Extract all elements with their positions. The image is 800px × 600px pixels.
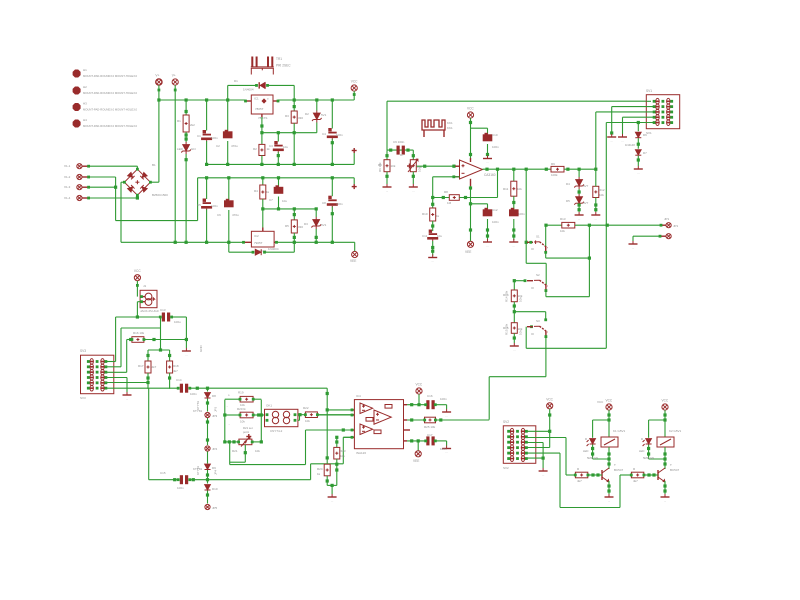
svg-text:JP3: JP3: [212, 414, 218, 418]
svg-text:...: ...: [486, 160, 489, 164]
svg-text:R13: R13: [560, 217, 566, 221]
svg-text:...: ...: [486, 244, 489, 248]
svg-text:JP4: JP4: [212, 447, 218, 451]
svg-text:R7: R7: [400, 153, 404, 157]
svg-text:D8: D8: [212, 394, 216, 398]
svg-text:78XXS: 78XXS: [258, 116, 267, 120]
svg-text:100n: 100n: [211, 204, 218, 208]
svg-text:5MM GN: 5MM GN: [643, 456, 654, 460]
svg-text:100n: 100n: [518, 212, 525, 216]
svg-text:SV2: SV2: [503, 420, 509, 424]
svg-text:100n: 100n: [190, 392, 197, 396]
svg-text:10k: 10k: [418, 167, 422, 172]
svg-text:D5: D5: [566, 199, 570, 203]
svg-text:PRI 2SEC: PRI 2SEC: [276, 64, 291, 68]
svg-text:D10: D10: [212, 487, 218, 491]
svg-text:TR1: TR1: [276, 57, 282, 61]
svg-text:10k: 10k: [340, 454, 345, 458]
svg-text:330: 330: [298, 116, 303, 120]
svg-text:C10: C10: [492, 133, 498, 137]
svg-text:...: ...: [445, 414, 448, 418]
svg-text:...: ...: [126, 397, 129, 401]
svg-text:1N4004: 1N4004: [268, 247, 279, 251]
svg-text:C17: C17: [427, 433, 433, 437]
svg-text:100n: 100n: [492, 220, 499, 224]
svg-text:C13: C13: [160, 308, 166, 312]
svg-text:7805T: 7805T: [255, 107, 264, 111]
svg-text:100u: 100u: [174, 320, 181, 324]
svg-text:100n: 100n: [336, 133, 343, 137]
svg-text:K1 G5V1: K1 G5V1: [613, 429, 626, 433]
svg-text:C16: C16: [427, 394, 433, 398]
svg-text:10k: 10k: [519, 330, 523, 335]
svg-text:4V7: 4V7: [583, 201, 589, 205]
svg-text:R22: R22: [303, 406, 309, 410]
svg-text:10u: 10u: [437, 234, 442, 238]
svg-text:100n: 100n: [211, 136, 218, 140]
svg-text:C12: C12: [492, 208, 498, 212]
svg-text:4k7: 4k7: [633, 479, 638, 483]
svg-text:10k: 10k: [391, 164, 396, 168]
svg-text:MOUNT-PAD-ROUND3.0 MOUNT-HOLE3: MOUNT-PAD-ROUND3.0 MOUNT-HOLE3.0: [83, 74, 138, 78]
svg-text:D2: D2: [305, 112, 309, 116]
svg-text:7905T: 7905T: [254, 241, 263, 245]
svg-text:R2: R2: [253, 147, 257, 151]
svg-text:INA126: INA126: [356, 451, 366, 455]
svg-text:10k: 10k: [255, 449, 260, 453]
svg-text:JP3: JP3: [214, 406, 218, 412]
svg-text:R9: R9: [551, 162, 555, 166]
svg-text:C1: C1: [197, 134, 201, 138]
svg-text:VEE: VEE: [413, 459, 419, 463]
svg-text:10u: 10u: [282, 199, 287, 203]
svg-text:LED: LED: [639, 449, 644, 453]
svg-text:VCC: VCC: [546, 397, 553, 401]
svg-text:VCC: VCC: [467, 107, 474, 111]
svg-text:1k: 1k: [317, 472, 321, 476]
svg-text:5V1: 5V1: [321, 113, 327, 117]
svg-text:C2: C2: [216, 144, 220, 148]
svg-text:R20 Ik: R20 Ik: [237, 407, 246, 411]
svg-text:R12: R12: [599, 188, 605, 192]
svg-text:...: ...: [386, 189, 389, 193]
svg-text:...: ...: [331, 499, 334, 503]
svg-text:JP4: JP4: [214, 469, 218, 475]
svg-text:330: 330: [298, 225, 303, 229]
svg-text:X1-3: X1-3: [64, 185, 71, 189]
svg-text:C4: C4: [322, 132, 326, 136]
svg-text:KK1: KK1: [447, 121, 453, 125]
svg-text:R11: R11: [503, 187, 509, 191]
svg-text:KK1: KK1: [447, 126, 453, 130]
svg-text:...: ...: [621, 139, 624, 143]
svg-text:MOUNT-PAD-ROUND3.0 MOUNT-HOLE3: MOUNT-PAD-ROUND3.0 MOUNT-HOLE3.0: [83, 91, 138, 95]
svg-text:S2: S2: [536, 273, 540, 277]
svg-text:D3: D3: [304, 222, 308, 226]
svg-text:MOUNT-PAD-ROUND3.0 MOUNT-HOLE3: MOUNT-PAD-ROUND3.0 MOUNT-HOLE3.0: [83, 108, 138, 112]
svg-text:VEE: VEE: [350, 259, 356, 263]
svg-text:IC2: IC2: [254, 234, 259, 238]
svg-text:470u: 470u: [231, 144, 238, 148]
svg-text:R17: R17: [138, 364, 144, 368]
svg-text:1k: 1k: [266, 190, 270, 194]
svg-text:B1: B1: [152, 163, 156, 167]
svg-text:VCC: VCC: [597, 400, 604, 404]
svg-text:...: ...: [610, 139, 613, 143]
svg-text:10k: 10k: [305, 419, 310, 423]
svg-text:D9: D9: [212, 466, 216, 470]
svg-text:CA3160: CA3160: [484, 173, 496, 177]
svg-text:1M: 1M: [447, 201, 452, 205]
svg-text:R19: R19: [238, 391, 244, 395]
svg-text:R3: R3: [285, 114, 289, 118]
svg-text:H1: H1: [83, 68, 87, 72]
svg-text:T: T: [670, 463, 672, 467]
svg-text:VEE: VEE: [465, 250, 471, 254]
svg-text:C11: C11: [422, 234, 428, 238]
svg-text:C5: C5: [197, 203, 201, 207]
svg-text:...: ...: [637, 171, 640, 175]
svg-text:SV1: SV1: [646, 131, 652, 135]
svg-text:C6: C6: [217, 213, 221, 217]
svg-text:H2: H2: [83, 85, 87, 89]
svg-text:KTY81: KTY81: [196, 465, 200, 475]
svg-text:R24: R24: [317, 467, 323, 471]
svg-text:C3: C3: [269, 144, 273, 148]
svg-text:VCC: VCC: [134, 269, 141, 273]
svg-text:C8: C8: [322, 201, 326, 205]
svg-text:...: ...: [228, 423, 230, 426]
svg-text:S1: S1: [536, 235, 540, 239]
svg-text:D7: D7: [643, 151, 647, 155]
svg-text:CNY74-2: CNY74-2: [270, 429, 283, 433]
svg-text:100k: 100k: [551, 173, 558, 177]
svg-text:H4: H4: [83, 118, 87, 122]
svg-text:10u: 10u: [283, 145, 288, 149]
svg-text:JP1: JP1: [673, 224, 679, 228]
svg-text:D4: D4: [566, 182, 570, 186]
svg-text:...: ...: [431, 259, 434, 263]
svg-text:VCC: VCC: [606, 399, 613, 403]
svg-text:1N4004: 1N4004: [243, 88, 254, 92]
svg-text:100n: 100n: [440, 397, 447, 401]
svg-text:GN: GN: [191, 147, 196, 151]
svg-text:2k2: 2k2: [190, 123, 195, 127]
svg-text:100n: 100n: [492, 145, 499, 149]
svg-text:VCC: VCC: [416, 383, 423, 387]
svg-text:KTY81: KTY81: [196, 400, 200, 410]
svg-text:4k7: 4k7: [173, 369, 178, 373]
svg-text:H3: H3: [83, 102, 87, 106]
svg-text:10k: 10k: [517, 187, 522, 191]
svg-text:10k: 10k: [599, 193, 604, 197]
svg-text:SV1: SV1: [646, 89, 652, 93]
svg-text:R6 10k: R6 10k: [378, 162, 382, 172]
svg-text:D6: D6: [643, 133, 647, 137]
svg-text:...: ...: [542, 473, 545, 477]
svg-text:R1: R1: [177, 119, 181, 123]
svg-text:R14 10k: R14 10k: [505, 290, 509, 302]
svg-text:SV3: SV3: [80, 349, 86, 353]
svg-text:IC1: IC1: [254, 97, 259, 101]
svg-text:C15: C15: [160, 471, 166, 475]
svg-text:4k7: 4k7: [152, 365, 157, 369]
svg-text:...: ...: [513, 348, 516, 352]
svg-text:V+: V+: [155, 74, 159, 78]
svg-text:SV3: SV3: [80, 396, 86, 400]
svg-text:SV2: SV2: [503, 466, 509, 470]
svg-text:J1: J1: [143, 284, 147, 288]
svg-text:IC4: IC4: [356, 394, 361, 398]
svg-text:10k: 10k: [560, 229, 565, 233]
svg-text:R25 10k: R25 10k: [424, 425, 436, 429]
svg-text:10k: 10k: [240, 420, 245, 424]
svg-text:C14: C14: [176, 378, 182, 382]
svg-text:JP1: JP1: [664, 217, 670, 221]
svg-text:X1-1: X1-1: [64, 164, 71, 168]
svg-text:VCC: VCC: [351, 80, 358, 84]
svg-text:1N4148: 1N4148: [625, 143, 635, 147]
svg-text:470u: 470u: [232, 213, 239, 217]
svg-text:R21: R21: [232, 449, 238, 453]
svg-text:VCC: VCC: [662, 399, 669, 403]
svg-text:R16 10k: R16 10k: [133, 331, 145, 335]
svg-text:...: ...: [513, 244, 516, 248]
svg-text:R4: R4: [254, 189, 258, 193]
svg-text:100n: 100n: [177, 486, 184, 490]
svg-text:100n: 100n: [336, 202, 343, 206]
svg-text:D1: D1: [234, 79, 238, 83]
svg-text:B250C1500: B250C1500: [152, 193, 168, 197]
svg-text:point: point: [243, 430, 249, 434]
svg-text:JP5: JP5: [212, 506, 218, 510]
svg-text:X1-4: X1-4: [64, 196, 71, 200]
svg-text:4k7: 4k7: [577, 479, 582, 483]
svg-text:LED: LED: [583, 449, 588, 453]
svg-text:GND: GND: [199, 345, 203, 353]
svg-text:1k: 1k: [436, 214, 440, 218]
svg-text:...: ...: [608, 499, 611, 503]
svg-text:...: ...: [185, 353, 188, 357]
svg-text:R23: R23: [340, 449, 346, 453]
svg-text:5MM GN: 5MM GN: [587, 456, 598, 460]
svg-text:...: ...: [226, 405, 228, 408]
svg-text:R15 10k: R15 10k: [505, 323, 509, 335]
svg-text:C9 100n: C9 100n: [393, 140, 405, 144]
svg-text:V+: V+: [172, 74, 176, 78]
svg-text:X1-2: X1-2: [64, 175, 71, 179]
svg-text:...: ...: [595, 217, 598, 221]
svg-text:BC547: BC547: [614, 468, 624, 472]
svg-text:K2 G5V1: K2 G5V1: [669, 429, 682, 433]
svg-text:100n: 100n: [440, 447, 447, 451]
svg-text:4V7: 4V7: [583, 184, 589, 188]
svg-text:R10: R10: [422, 212, 428, 216]
svg-text:JACK-PLUG0: JACK-PLUG0: [140, 309, 159, 313]
svg-text:5V1: 5V1: [321, 223, 327, 227]
svg-text:S3: S3: [536, 319, 540, 323]
svg-text:...: ...: [578, 217, 581, 221]
svg-text:...: ...: [664, 499, 667, 503]
svg-text:R8: R8: [444, 190, 448, 194]
svg-text:LED: LED: [177, 147, 184, 151]
svg-text:...: ...: [632, 246, 635, 250]
svg-text:BC547: BC547: [670, 468, 680, 472]
svg-text:...: ...: [412, 189, 415, 193]
svg-text:R5: R5: [285, 224, 289, 228]
svg-text:10k: 10k: [519, 297, 523, 302]
svg-text:OK1: OK1: [266, 404, 272, 408]
svg-text:T: T: [614, 463, 616, 467]
svg-text:R18: R18: [173, 364, 179, 368]
svg-text:C7: C7: [269, 198, 273, 202]
svg-text:MOUNT-PAD-ROUND3.0 MOUNT-HOLE3: MOUNT-PAD-ROUND3.0 MOUNT-HOLE3.0: [83, 124, 138, 128]
